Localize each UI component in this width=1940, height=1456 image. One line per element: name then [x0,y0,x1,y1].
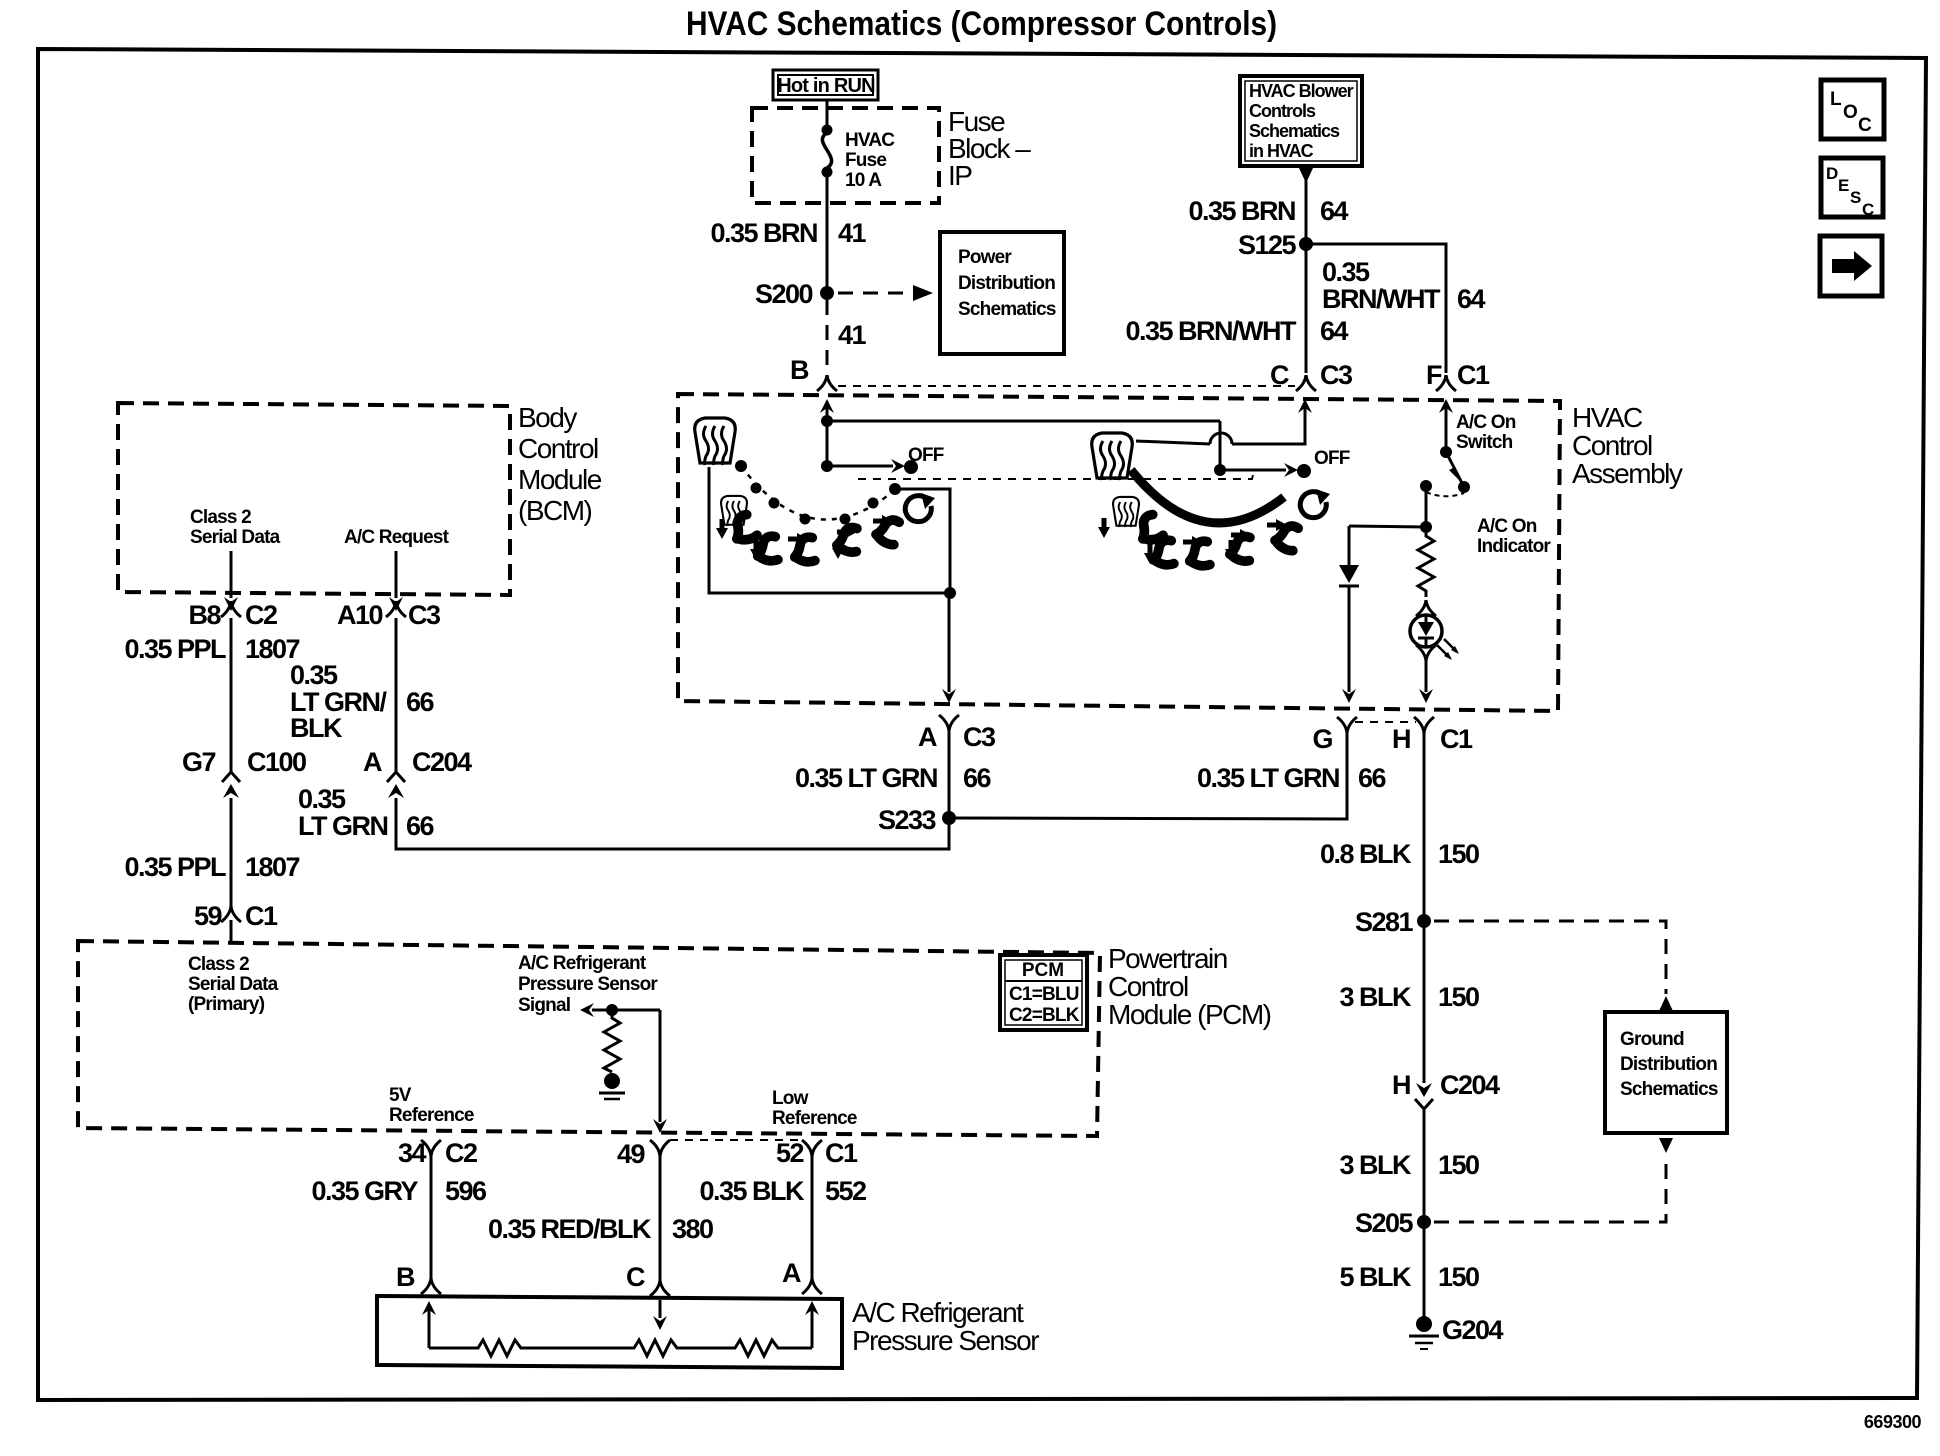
svg-text:C: C [1858,115,1872,136]
wire C204 to S205 [1423,1110,1426,1216]
svg-text:66: 66 [406,811,435,841]
bulb socket fork lower [1416,645,1436,661]
LOC nav box [1821,80,1884,139]
svg-text:1807: 1807 [245,852,300,882]
wire left switch output to A [948,593,951,692]
svg-text:D: D [1826,164,1838,183]
wire S281 to C204 [1423,921,1426,1083]
wire S125 to C [1305,244,1308,373]
svg-text:C1=BLU: C1=BLU [1009,984,1079,1005]
node S125 [1299,237,1313,251]
wire H down [1423,733,1426,915]
wire to diode branch [1349,526,1426,527]
A/C Refrigerant Pressure Sensor box [377,1296,842,1368]
Body Control Module dashed box [118,403,510,595]
svg-text:Serial Data: Serial Data [188,974,279,995]
BCM Class 2 output arrow [230,551,233,598]
svg-text:PCM: PCM [1022,960,1064,981]
svg-text:S: S [1850,188,1861,207]
svg-text:HVAC Blower: HVAC Blower [1249,81,1354,101]
svg-text:0.8 BLK: 0.8 BLK [1320,839,1412,869]
wire S125 branch to F [1306,244,1446,373]
svg-text:A: A [782,1258,801,1288]
svg-text:A/C On: A/C On [1477,516,1537,537]
svg-text:Control: Control [518,433,598,464]
wire C entry to right switch [1232,405,1305,444]
wire 0.35 PPL 1807 lower [230,798,233,906]
svg-text:Pressure Sensor: Pressure Sensor [852,1325,1039,1356]
svg-text:64: 64 [1320,316,1349,346]
svg-text:Module (PCM): Module (PCM) [1108,999,1271,1030]
right mode icons [1136,513,1163,543]
wire F entry to A/C On Switch [1445,408,1448,452]
svg-text:0.35 BRN: 0.35 BRN [1188,196,1295,226]
svg-text:66: 66 [963,763,992,793]
left mode icons [730,513,757,543]
wire 0.35 BLK 552 [811,1156,814,1278]
svg-text:49: 49 [617,1139,646,1169]
svg-text:0.35: 0.35 [290,660,338,690]
left switch wiper arc (dashed with position dots) [741,466,896,520]
HVAC Control Assembly dashed box [678,394,1560,711]
node left switch feed [821,460,833,472]
left switch defrost contact [735,460,747,472]
ganged switch dashed link [858,471,1254,479]
svg-text:G: G [1312,724,1332,754]
svg-text:Distribution: Distribution [958,273,1055,294]
right switch defrost icon [1092,433,1133,480]
fuse block dashed box [752,108,939,203]
svg-text:A: A [918,722,937,752]
svg-text:64: 64 [1457,284,1486,314]
dashed arrow wire S200 to Power Distribution [838,292,914,295]
signal arrow into PCM [580,1003,594,1017]
svg-text:0.35 RED/BLK: 0.35 RED/BLK [488,1214,652,1244]
svg-text:0.35 BLK: 0.35 BLK [699,1176,805,1206]
Ground Distribution Schematics box [1605,1012,1727,1133]
wire hop over feed bus [1210,433,1232,444]
svg-text:66: 66 [1358,763,1387,793]
svg-text:S205: S205 [1355,1208,1414,1238]
connector C1 dashed link G to H [1355,721,1416,723]
svg-text:Powertrain: Powertrain [1108,943,1227,974]
svg-text:41: 41 [838,320,867,350]
LED indicator lamp [1410,615,1459,660]
wire feed bus corner down [1219,421,1222,470]
svg-text:C204: C204 [1440,1070,1500,1100]
svg-text:0.35 PPL: 0.35 PPL [124,634,226,664]
svg-text:E: E [1838,176,1849,195]
wire to right OFF position [1220,469,1286,472]
right switch wiper arc (solid thick) [1131,470,1284,523]
svg-text:Indicator: Indicator [1477,536,1551,557]
wire 0.35 RED/BLK 380 [659,1156,662,1280]
svg-text:OFF: OFF [908,445,944,466]
Hot in RUN box [773,70,878,100]
svg-text:Power: Power [958,247,1012,268]
svg-text:150: 150 [1438,1262,1479,1292]
svg-text:in HVAC: in HVAC [1249,141,1314,161]
svg-text:S125: S125 [1238,230,1297,260]
svg-text:LT GRN: LT GRN [298,811,387,841]
svg-text:HVAC: HVAC [1572,402,1643,433]
node indicator junction [1420,521,1432,533]
wire 0.35 GRY 596 [430,1156,433,1278]
right small defrost icon [1113,497,1139,527]
svg-text:Schematics: Schematics [1249,121,1340,141]
HVAC Blower Controls box [1240,76,1362,166]
node S233 [942,811,956,825]
svg-text:C2=BLK: C2=BLK [1009,1005,1080,1026]
wire indicator to H [1425,661,1428,692]
left switch contact frame [709,467,950,593]
svg-text:S281: S281 [1355,907,1414,937]
fuse HVAC Fuse 10 A [822,125,896,192]
svg-text:0.35 LT GRN: 0.35 LT GRN [1197,763,1339,793]
svg-text:5V: 5V [389,1085,412,1106]
svg-text:(BCM): (BCM) [518,495,592,526]
sensor internal wire B leg [428,1305,431,1348]
svg-text:O: O [1843,102,1858,123]
indicator resistor [1418,533,1434,597]
svg-text:3 BLK: 3 BLK [1339,1150,1412,1180]
svg-text:B: B [396,1262,415,1292]
wire A/C request (0.35 LT GRN/BLK 66) [395,618,398,772]
node: pull-up junction [606,1004,618,1016]
wire A to S233 [948,731,951,818]
svg-text:Fuse: Fuse [845,150,886,171]
svg-text:A/C Refrigerant: A/C Refrigerant [852,1297,1024,1328]
svg-text:C3: C3 [1320,360,1353,390]
svg-text:Pressure Sensor: Pressure Sensor [518,974,658,995]
left rotate icon [905,493,935,522]
svg-text:66: 66 [406,687,435,717]
wire Class 2 serial data (0.35 PPL 1807) [230,618,233,772]
svg-text:C3: C3 [963,722,996,752]
svg-text:Low: Low [772,1088,809,1109]
svg-text:Signal: Signal [518,995,570,1016]
svg-text:HVAC Schematics (Compressor Co: HVAC Schematics (Compressor Controls) [686,5,1277,43]
svg-text:B: B [790,355,809,385]
svg-text:C100: C100 [247,747,306,777]
node left switch output [944,587,956,599]
svg-text:A: A [363,747,382,777]
svg-text:C: C [1862,200,1874,219]
svg-text:0.35: 0.35 [1322,257,1370,287]
PCM connector code box [1000,955,1087,1030]
connector C3 dashed link B to C [838,385,1295,387]
in-line connector C204 [387,772,405,798]
svg-text:H: H [1392,724,1410,754]
A/C On Switch [1440,446,1452,458]
svg-text:59: 59 [194,901,223,931]
svg-text:5 BLK: 5 BLK [1339,1262,1412,1292]
wire 0.35 LT GRN 66 to S233 [396,798,949,849]
svg-text:C204: C204 [412,747,472,777]
svg-text:B8: B8 [188,600,221,630]
dashed wire S205 to Ground Distribution [1434,1155,1666,1222]
svg-text:BLK: BLK [290,713,343,743]
dashed wire S281 to Ground Distribution [1434,921,1666,994]
left small defrost icon [721,496,747,526]
svg-text:Hot in RUN: Hot in RUN [777,75,875,97]
svg-text:S233: S233 [878,805,937,835]
node S205 [1417,1215,1431,1229]
arrow from HVAC Blower box [1299,168,1313,183]
svg-text:Schematics: Schematics [958,299,1056,320]
svg-text:0.35: 0.35 [298,784,346,814]
svg-text:0.35 BRN: 0.35 BRN [710,218,817,248]
svg-text:C1: C1 [245,901,278,931]
svg-text:F: F [1426,360,1442,390]
node S281 [1417,914,1431,928]
svg-text:A/C Request: A/C Request [344,527,450,548]
svg-text:380: 380 [672,1214,713,1244]
DESC nav box [1821,158,1883,219]
svg-text:Ground: Ground [1620,1029,1684,1050]
svg-text:HVAC: HVAC [845,130,895,151]
BCM A/C Request output arrow [395,551,398,598]
svg-text:41: 41 [838,218,867,248]
wire feed bus to right switch [827,420,1220,423]
resistor in PCM [604,1010,620,1072]
left switch defrost icon [695,418,736,465]
svg-text:Control: Control [1572,430,1652,461]
svg-text:Controls: Controls [1249,101,1316,121]
bulb socket fork upper [1416,600,1436,616]
svg-text:A/C On: A/C On [1456,412,1516,433]
wire S233 to G [949,733,1347,819]
svg-text:552: 552 [825,1176,866,1206]
svg-text:G204: G204 [1442,1315,1504,1345]
in-line connector C100 [222,772,240,798]
svg-text:H: H [1392,1070,1410,1100]
right rotate icon [1300,489,1330,518]
wire signal down to pin 49 [659,1010,662,1122]
svg-text:Control: Control [1108,971,1188,1002]
svg-text:10 A: 10 A [845,170,882,191]
svg-text:Class 2: Class 2 [188,954,249,975]
svg-text:C1: C1 [825,1138,858,1168]
dashed wire S200 to connector B [826,300,829,373]
internal ground in PCM [604,1073,620,1089]
svg-text:C: C [1270,360,1289,390]
svg-text:150: 150 [1438,1150,1479,1180]
svg-text:0.35 LT GRN: 0.35 LT GRN [795,763,937,793]
node at B feed [821,415,833,427]
svg-text:OFF: OFF [1314,448,1350,469]
connector C1 dashed link 49 to 52 [670,1139,800,1141]
node right switch feed [1214,464,1226,476]
connector B fork [817,375,837,391]
svg-text:C: C [626,1262,645,1292]
svg-text:0.35 BRN/WHT: 0.35 BRN/WHT [1125,316,1297,346]
svg-text:Reference: Reference [772,1108,857,1129]
wire B entry arrow [826,408,829,421]
svg-text:0.35 PPL: 0.35 PPL [124,852,226,882]
svg-text:596: 596 [445,1176,487,1206]
wire to S125 [1305,180,1308,238]
svg-text:Switch: Switch [1456,432,1513,453]
svg-text:C2: C2 [445,1138,477,1168]
svg-text:Assembly: Assembly [1572,458,1683,489]
wire S205 to G204 [1423,1222,1426,1320]
svg-text:G7: G7 [182,747,216,777]
right OFF contact [1297,464,1311,478]
wire from Hot in RUN into fuse block [826,100,829,125]
sensor internal wire A leg [811,1305,814,1348]
svg-text:C2: C2 [245,600,277,630]
node S200 [820,286,834,300]
wire switch output [1425,486,1428,527]
svg-text:52: 52 [776,1138,804,1168]
svg-text:C1: C1 [1457,360,1490,390]
svg-text:0.35 GRY: 0.35 GRY [311,1176,418,1206]
left OFF contact [904,460,918,474]
svg-text:Schematics: Schematics [1620,1079,1718,1100]
wire down to left switch feed [826,421,829,466]
Power Distribution Schematics box [940,232,1064,354]
svg-text:A10: A10 [337,600,383,630]
svg-text:Serial Data: Serial Data [190,527,281,548]
wire to left OFF position [827,465,893,468]
diode [1348,526,1351,565]
svg-text:L: L [1830,89,1842,110]
svg-text:150: 150 [1438,839,1479,869]
wire fuse to S200 [826,177,829,288]
svg-text:(Primary): (Primary) [188,994,265,1015]
svg-text:3 BLK: 3 BLK [1339,982,1412,1012]
sensor internal wire C leg (wiper) [659,1300,662,1318]
ground G204 [1416,1316,1432,1332]
svg-text:A/C Refrigerant: A/C Refrigerant [518,953,647,974]
svg-text:BRN/WHT: BRN/WHT [1322,284,1441,314]
svg-text:C3: C3 [408,600,441,630]
svg-text:669300: 669300 [1864,1412,1922,1432]
svg-text:Body: Body [518,402,577,433]
svg-text:Module: Module [518,464,602,495]
sensor resistor network [429,1340,812,1356]
svg-text:64: 64 [1320,196,1349,226]
Powertrain Control Module dashed box [78,941,1100,1136]
svg-text:IP: IP [948,160,972,191]
svg-text:Class 2: Class 2 [190,507,251,528]
arrow nav box [1820,236,1882,296]
svg-text:S200: S200 [755,279,813,309]
svg-text:Reference: Reference [389,1105,474,1126]
svg-text:C1: C1 [1440,724,1473,754]
svg-text:Distribution: Distribution [1620,1054,1717,1075]
svg-text:150: 150 [1438,982,1479,1012]
